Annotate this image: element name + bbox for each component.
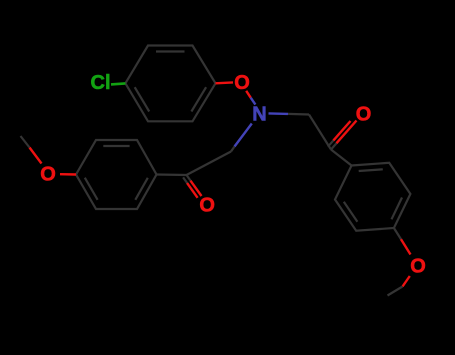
carbonyl Ck1=O double bond line 2 (red part) xyxy=(187,183,198,198)
carbonyl Ck1=O double bond line 1 (red part) xyxy=(191,181,202,196)
bond C-Cl xyxy=(111,83,125,84)
carbonyl C2'=O double bond line 1 (dark part) xyxy=(331,142,338,149)
svg-text:O: O xyxy=(410,256,426,278)
bond N-C2 (left chain, dark part) xyxy=(231,147,235,152)
carbonyl Ck1=O double bond line 1 (dark part) xyxy=(187,175,192,182)
bond C2-Ck1 (left chain CH2 to carbonyl) xyxy=(187,152,232,176)
carbonyl C2'=O double bond line 2 (dark part) xyxy=(328,139,335,146)
bond N-C1 (blue part) xyxy=(269,112,289,115)
benzene ring (4-methoxyphenyl, right) xyxy=(335,163,410,231)
svg-text:O: O xyxy=(40,164,56,186)
svg-text:O: O xyxy=(356,103,372,125)
benzene ring (4-methoxyphenyl, left) xyxy=(76,140,157,209)
svg-text:O: O xyxy=(199,195,215,217)
benzene ring (4-chlorophenyl, top) xyxy=(125,46,215,122)
bond N-C2 (left chain, blue part) xyxy=(235,124,252,147)
carbonyl C2'=O double bond line 2 (red part) xyxy=(333,121,350,140)
bond Ck1-ring (to left benzene) xyxy=(157,173,187,176)
bond C1-C2' (right chain CH2 to carbonyl) xyxy=(309,115,331,150)
bond O-CH3 (left methoxy, red part) xyxy=(30,148,42,164)
bond O-CH3 (left methoxy, dark part) xyxy=(21,136,30,148)
bond O1-N (blue half) xyxy=(251,98,256,105)
bond O1-N (red half) xyxy=(246,91,251,98)
carbonyl C2'=O double bond line 1 (red part) xyxy=(337,121,357,144)
svg-text:Cl: Cl xyxy=(91,72,111,94)
bond O-CH3 (right methoxy, red part) xyxy=(403,276,410,287)
bond N-C1 (dark part) xyxy=(288,113,309,116)
bond C2'-ring (to right benzene) xyxy=(331,150,352,166)
bond C-O (aryl ether to O1) xyxy=(216,81,234,84)
carbonyl Ck1=O double bond line 2 (dark part) xyxy=(183,177,188,184)
bond O-CH3 (right methoxy, dark part) xyxy=(388,287,403,296)
svg-text:N: N xyxy=(252,104,266,126)
bond ring-O (left methoxy) xyxy=(60,173,76,176)
bond ring-O (right methoxy) xyxy=(394,228,402,240)
